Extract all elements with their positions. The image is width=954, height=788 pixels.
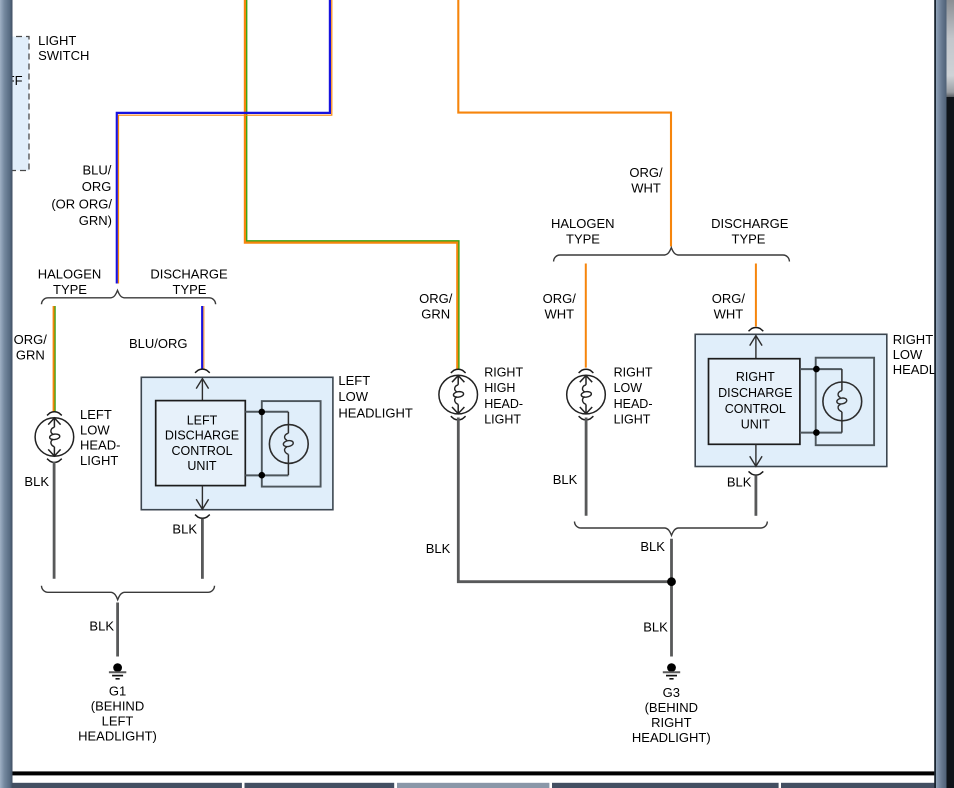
brace left halogen/discharge split bbox=[42, 290, 216, 304]
wire ORG/GRN stub green tracer bbox=[54, 306, 56, 412]
svg-text:(OR ORG/: (OR ORG/ bbox=[51, 197, 112, 212]
svg-text:HEAD-: HEAD- bbox=[80, 438, 120, 453]
svg-text:ORG/: ORG/ bbox=[543, 291, 577, 306]
svg-text:G1: G1 bbox=[109, 683, 126, 698]
svg-text:TYPE: TYPE bbox=[566, 231, 600, 246]
svg-text:LOW: LOW bbox=[80, 422, 110, 437]
wire ORG/GRN feed (orange line) bbox=[245, 0, 457, 369]
svg-text:BLK: BLK bbox=[727, 474, 752, 489]
bottom bar segment 4 bbox=[552, 783, 779, 788]
label RIGHT LOW HEADLIGHT bulb bbox=[614, 366, 653, 427]
label ORG/WHT top bbox=[629, 165, 663, 196]
wire BLU/ORG from light switch (blue line) bbox=[117, 0, 330, 284]
label LEFT LOW HEADLIGHT box bbox=[338, 373, 412, 421]
svg-text:LOW: LOW bbox=[893, 347, 923, 362]
bulb left low headlight bbox=[35, 418, 74, 457]
svg-text:DISCHARGE: DISCHARGE bbox=[165, 429, 239, 443]
svg-text:RIGHT: RIGHT bbox=[893, 332, 934, 347]
wire BLK left unit down bbox=[201, 519, 204, 579]
svg-text:RIGHT: RIGHT bbox=[651, 715, 692, 730]
svg-text:(BEHIND: (BEHIND bbox=[645, 700, 698, 715]
connector cup below left discharge control unit bbox=[195, 515, 210, 519]
label ORG/GRN mid bbox=[419, 291, 453, 322]
bottom bar segment 5 bbox=[781, 783, 936, 788]
svg-text:CONTROL: CONTROL bbox=[725, 402, 786, 416]
label BLK left ground bbox=[89, 618, 114, 633]
connector cup below right high headlight bbox=[451, 416, 466, 420]
left headlight assembly rectangle bbox=[262, 401, 321, 487]
svg-text:DISCHARGE: DISCHARGE bbox=[718, 386, 792, 400]
wire lead bottom right unit bbox=[800, 432, 842, 434]
label RIGHT LOW HEADLIGHT box (clipped) bbox=[893, 332, 954, 377]
wire lead top left unit bbox=[245, 411, 288, 413]
svg-text:LIGHT: LIGHT bbox=[614, 412, 651, 426]
svg-text:GRN: GRN bbox=[421, 306, 450, 321]
svg-text:WHT: WHT bbox=[714, 306, 744, 321]
svg-text:HALOGEN: HALOGEN bbox=[551, 216, 615, 231]
svg-text:GRN: GRN bbox=[16, 348, 45, 363]
svg-text:RIGHT: RIGHT bbox=[736, 370, 775, 384]
right discharge control unit outer box bbox=[695, 334, 887, 466]
label BLK right low bbox=[553, 472, 578, 487]
arrow into right discharge control unit bbox=[750, 336, 762, 359]
svg-text:HEADLIGHT: HEADLIGHT bbox=[338, 405, 412, 420]
svg-text:LEFT: LEFT bbox=[187, 413, 218, 427]
svg-text:BLK: BLK bbox=[24, 474, 49, 489]
svg-text:HEAD-: HEAD- bbox=[484, 397, 523, 411]
bottom bar segment 1 bbox=[13, 783, 242, 788]
wire lead top right unit bbox=[800, 368, 842, 370]
bulb inside left unit bbox=[269, 412, 308, 475]
connector cup below right discharge control unit bbox=[749, 471, 764, 475]
label BLK right unit bbox=[727, 474, 752, 489]
svg-text:ORG/: ORG/ bbox=[712, 291, 746, 306]
right discharge control unit inner box U2 bbox=[709, 359, 800, 445]
wire BLK right unit down bbox=[755, 476, 758, 516]
svg-text:HEADLIGHT): HEADLIGHT) bbox=[78, 728, 157, 743]
label BLU/ORG stub bbox=[129, 336, 188, 351]
connector cup below left low headlight bbox=[47, 459, 62, 463]
bottom black rule bbox=[13, 771, 937, 775]
label RIGHT HIGH HEADLIGHT bulb bbox=[484, 366, 523, 427]
label BLU/ORG (OR ORG/GRN) bbox=[51, 162, 112, 228]
svg-text:BLK: BLK bbox=[553, 472, 578, 487]
svg-text:BLU/ORG: BLU/ORG bbox=[129, 336, 188, 351]
label BLK right brace bbox=[640, 539, 665, 554]
svg-text:DISCHARGE: DISCHARGE bbox=[711, 216, 789, 231]
wire BLU/ORG stub to left discharge unit (blue) bbox=[201, 306, 203, 369]
wire BLK left low headlight down bbox=[53, 462, 56, 579]
svg-text:(BEHIND: (BEHIND bbox=[91, 698, 144, 713]
left discharge control unit inner box U1 bbox=[156, 401, 246, 486]
ground G1 bbox=[109, 663, 126, 679]
svg-text:WHT: WHT bbox=[631, 181, 661, 196]
light switch dashed box bbox=[6, 37, 29, 171]
svg-text:LIGHT: LIGHT bbox=[80, 453, 118, 468]
svg-text:RIGHT: RIGHT bbox=[614, 366, 653, 380]
junction dot right unit bottom bbox=[813, 429, 820, 436]
brace left ground join bbox=[42, 586, 215, 600]
label BLK left unit bbox=[172, 521, 197, 536]
scrollbar thumb bbox=[947, 0, 954, 97]
svg-text:ORG/: ORG/ bbox=[14, 332, 48, 347]
light switch OFF label bbox=[0, 73, 23, 88]
label HALOGEN TYPE left bbox=[38, 266, 102, 297]
light switch label bbox=[38, 33, 89, 63]
wire BLU/ORG orange tracer bbox=[119, 0, 332, 284]
brace right halogen/discharge split bbox=[554, 248, 790, 262]
label G1 bbox=[78, 683, 157, 743]
svg-text:TYPE: TYPE bbox=[53, 282, 87, 297]
svg-text:BLK: BLK bbox=[172, 521, 197, 536]
svg-text:BLK: BLK bbox=[89, 618, 114, 633]
brace right ground join bbox=[575, 522, 768, 536]
wire ORG/GRN stub to left low headlight (orange) bbox=[53, 306, 55, 412]
bottom bar segment 3 bbox=[397, 783, 549, 788]
label DISCHARGE TYPE right bbox=[711, 216, 789, 247]
label BLK left bulb bbox=[24, 474, 49, 489]
wire BLU/ORG stub orange tracer bbox=[203, 306, 205, 369]
wire BLK right low headlight down bbox=[585, 418, 588, 516]
svg-text:ORG/: ORG/ bbox=[629, 165, 663, 180]
svg-text:DISCHARGE: DISCHARGE bbox=[150, 266, 228, 281]
svg-text:BLK: BLK bbox=[640, 539, 665, 554]
svg-text:UNIT: UNIT bbox=[187, 459, 217, 473]
svg-text:G3: G3 bbox=[663, 685, 680, 700]
svg-text:BLU/: BLU/ bbox=[82, 162, 111, 177]
arrow out of left discharge control unit bbox=[196, 486, 208, 510]
svg-text:TYPE: TYPE bbox=[732, 231, 766, 246]
wire ORG/WHT stub to right low headlight bbox=[585, 264, 587, 368]
connector cup above right discharge control unit bbox=[749, 328, 764, 332]
svg-text:HALOGEN: HALOGEN bbox=[38, 266, 102, 281]
wire ORG/GRN green tracer bbox=[247, 0, 459, 369]
bottom bar segment 2 bbox=[245, 783, 395, 788]
svg-text:WHT: WHT bbox=[544, 306, 574, 321]
bulb inside right unit bbox=[823, 369, 862, 433]
svg-text:UNIT: UNIT bbox=[741, 417, 771, 431]
wire BLK right high headlight to junction bbox=[458, 418, 669, 582]
svg-text:LOW: LOW bbox=[614, 381, 643, 395]
junction dot left unit bottom bbox=[259, 472, 266, 479]
arrow out of right discharge control unit bbox=[750, 444, 762, 466]
bulb right low headlight bbox=[567, 375, 606, 414]
arrow into left discharge control unit bbox=[196, 379, 208, 401]
svg-text:BLK: BLK bbox=[426, 541, 451, 556]
svg-text:HEADLIGHT): HEADLIGHT) bbox=[632, 730, 711, 745]
right headlight assembly rectangle bbox=[816, 358, 874, 446]
label BLK above G3 bbox=[643, 619, 668, 634]
label DISCHARGE TYPE left bbox=[150, 266, 228, 297]
connector cup above right low headlight bbox=[579, 369, 594, 373]
svg-text:LEFT: LEFT bbox=[80, 407, 112, 422]
svg-text:LIGHT: LIGHT bbox=[38, 33, 76, 48]
label ORG/WHT mid left bbox=[543, 291, 577, 322]
wire BLK right ground drop bbox=[670, 539, 673, 657]
wire ORG/WHT feed bbox=[458, 0, 671, 247]
svg-text:TYPE: TYPE bbox=[173, 282, 207, 297]
svg-text:LEFT: LEFT bbox=[338, 373, 370, 388]
label ORG/GRN left bbox=[14, 332, 48, 363]
svg-text:LEFT: LEFT bbox=[102, 713, 134, 728]
scrollbar track bbox=[947, 0, 954, 788]
svg-text:ORG/: ORG/ bbox=[419, 291, 453, 306]
window left bar bbox=[0, 0, 13, 788]
svg-text:BLK: BLK bbox=[643, 619, 668, 634]
connector cup above left low headlight bbox=[47, 412, 62, 416]
junction dot right unit top bbox=[813, 366, 820, 373]
label HALOGEN TYPE right bbox=[551, 216, 615, 247]
svg-text:SWITCH: SWITCH bbox=[38, 48, 89, 63]
svg-text:CONTROL: CONTROL bbox=[171, 444, 232, 458]
wire BLK left ground drop bbox=[116, 603, 119, 657]
svg-text:HIGH: HIGH bbox=[484, 381, 515, 395]
connector cup above left discharge control unit bbox=[195, 369, 210, 373]
svg-text:LIGHT: LIGHT bbox=[484, 412, 521, 426]
connector cup above right high headlight bbox=[451, 369, 466, 373]
wire ORG/WHT stub to right discharge unit bbox=[755, 264, 757, 327]
label ORG/WHT mid right bbox=[712, 291, 746, 322]
ground G3 bbox=[663, 663, 680, 679]
svg-text:GRN): GRN) bbox=[79, 213, 112, 228]
svg-text:HEAD-: HEAD- bbox=[614, 397, 653, 411]
junction dot left unit top bbox=[259, 409, 266, 416]
junction node dot bbox=[667, 577, 676, 586]
label BLK right high bbox=[426, 541, 451, 556]
left discharge control unit outer box bbox=[141, 377, 333, 509]
svg-text:ORG: ORG bbox=[82, 179, 112, 194]
label LEFT LOW HEADLIGHT bulb bbox=[80, 407, 120, 468]
wire lead bottom left unit bbox=[245, 474, 288, 476]
svg-text:RIGHT: RIGHT bbox=[484, 366, 523, 380]
bulb right high headlight bbox=[439, 375, 478, 414]
connector cup below right low headlight bbox=[579, 416, 594, 420]
label G3 bbox=[632, 685, 711, 745]
svg-text:LOW: LOW bbox=[338, 389, 368, 404]
window right bar bbox=[934, 0, 946, 788]
